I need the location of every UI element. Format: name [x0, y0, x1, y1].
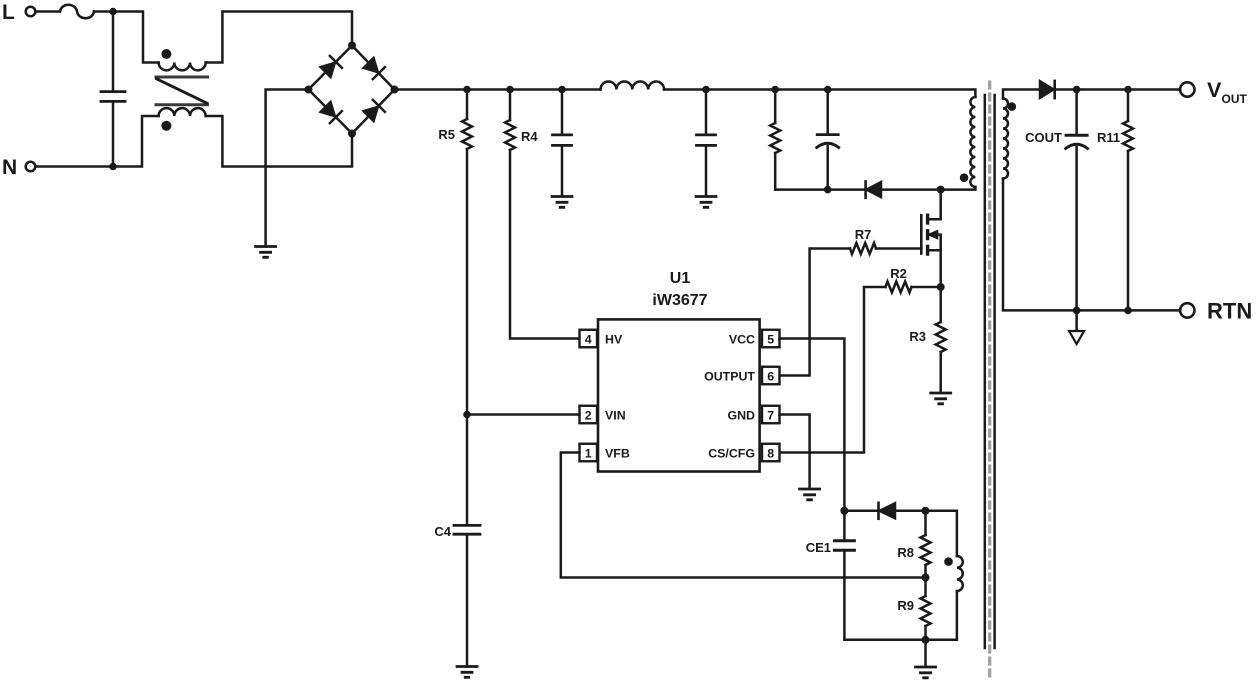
capacitor C4 bottom lead	[466, 536, 469, 666]
svg-text:HV: HV	[605, 333, 623, 347]
bridge BR1 edges	[309, 46, 395, 134]
resistor R8 top lead	[924, 511, 927, 535]
mosfet Q1 source wire	[929, 250, 941, 287]
transformer T1 primary phase dot	[960, 173, 969, 182]
diode D2 cathode bar	[877, 503, 880, 519]
svg-text:COUT: COUT	[1025, 130, 1062, 145]
resistor R11	[1123, 121, 1133, 151]
svg-text:4: 4	[585, 333, 592, 347]
ground bridge	[256, 247, 276, 258]
capacitor C2 top lead	[705, 90, 708, 134]
transformer T1 secondary winding	[1003, 99, 1008, 179]
IC U1 body	[598, 319, 760, 471]
diode D3 cathode bar	[1053, 81, 1056, 98]
capacitor C2 bottom lead	[705, 147, 708, 195]
capacitor C1 plates	[553, 135, 572, 146]
resistor R5	[462, 119, 472, 149]
capacitor CE1 top lead	[843, 511, 846, 540]
junction rail C1	[558, 86, 566, 94]
wire pin 7 GND down	[780, 415, 810, 489]
svg-text:C4: C4	[434, 524, 451, 539]
capacitor CX bottom lead	[112, 103, 115, 167]
svg-text:VCC: VCC	[729, 333, 755, 347]
pin 4 box	[580, 330, 598, 348]
wire D2 anode line	[844, 510, 877, 513]
resistor R8 bottom lead	[924, 565, 927, 578]
output ground arrow	[1069, 331, 1084, 344]
wire pin 1 VFB to divider	[561, 453, 926, 578]
junction N/X-cap	[109, 163, 117, 171]
ground R3	[931, 393, 951, 404]
wire main rail right	[664, 90, 975, 98]
junction rail C2	[702, 86, 710, 94]
choke T2 core diagonal	[157, 79, 208, 103]
pin 1 box	[580, 444, 598, 462]
wire pin 5 VCC down	[780, 339, 845, 511]
svg-text:R3: R3	[909, 329, 926, 344]
bridge BR1 diode bottom-left	[320, 101, 342, 123]
capacitor CX top lead	[112, 12, 115, 91]
junction R8 top node	[922, 507, 930, 515]
junction VIN node	[463, 411, 471, 419]
transformer T1 secondary phase dot	[1008, 102, 1017, 111]
capacitor Csnub plates	[817, 133, 838, 136]
svg-text:R4: R4	[521, 129, 538, 144]
resistor R9	[921, 596, 931, 626]
inductor L1	[601, 82, 665, 90]
resistor R11 bottom lead	[1127, 151, 1130, 310]
diode D2	[880, 503, 896, 518]
junction drain node	[937, 186, 945, 194]
diode D1 cathode bar	[864, 181, 867, 197]
wire choke top to bridge top	[206, 12, 352, 63]
svg-text:7: 7	[767, 409, 774, 423]
wire secondary top to D3	[1003, 90, 1040, 99]
wire L to fuse	[36, 10, 61, 13]
diode D3	[1040, 81, 1054, 98]
junction R11 bottom	[1124, 307, 1132, 315]
svg-text:VFB: VFB	[605, 447, 630, 461]
junction COUT top	[1073, 86, 1081, 94]
resistor Rsnub bottom lead	[774, 153, 777, 190]
resistor R5 bottom lead to VIN node	[466, 149, 469, 415]
pin 8 box	[762, 444, 780, 462]
resistor Rsnub top lead	[774, 90, 777, 124]
wire pin 8 CS/CFG to R2	[780, 287, 886, 453]
junction rail Csnub	[824, 86, 832, 94]
junction divider node	[922, 574, 930, 582]
svg-text:R11: R11	[1097, 130, 1120, 145]
wire D1 to primary bottom	[881, 187, 975, 190]
junction COUT bottom	[1073, 307, 1081, 315]
wire aux winding bottom	[844, 591, 957, 640]
svg-text:R7: R7	[855, 227, 872, 242]
terminal N	[26, 162, 36, 172]
svg-text:CE1: CE1	[806, 540, 831, 555]
diode D1	[867, 182, 882, 197]
junction L/X-cap	[109, 8, 117, 16]
junction rail R4	[506, 86, 514, 94]
capacitor Csnub curved plate	[817, 143, 839, 147]
capacitor CE1 plates	[834, 541, 854, 551]
resistor Rsnub	[770, 123, 780, 153]
wire VIN node to pin 2	[467, 413, 580, 416]
svg-text:L: L	[2, 1, 15, 24]
mosfet Q1 gate bar	[920, 215, 923, 253]
capacitor COUT bottom lead	[1075, 147, 1078, 310]
capacitor C1 top lead	[561, 90, 564, 134]
svg-text:RTN: RTN	[1207, 299, 1252, 324]
wire COUT bottom to output ground	[1075, 310, 1078, 331]
junction rail Rsnub	[771, 86, 779, 94]
junction Csnub bottom	[824, 186, 832, 194]
capacitor Csnub top lead	[826, 90, 829, 134]
mosfet Q1 channel segments	[926, 215, 929, 254]
ground pin 7	[800, 489, 820, 500]
wire D2 to aux winding	[895, 511, 957, 556]
svg-text:6: 6	[767, 370, 774, 384]
isolation barrier dashed line	[988, 82, 991, 678]
capacitor C4 plates	[454, 525, 480, 534]
transformer T1 core lines	[985, 95, 995, 648]
choke T2 bottom winding	[159, 108, 206, 116]
bridge BR1 vertex dots	[305, 42, 399, 138]
resistor R9 top lead	[924, 578, 927, 597]
bridge BR1 diode top-left	[320, 56, 342, 78]
svg-text:iW3677: iW3677	[652, 292, 707, 309]
resistor R4 top lead	[509, 90, 512, 121]
choke T2 top winding	[159, 63, 206, 71]
ground C2	[696, 197, 716, 208]
svg-text:OUT: OUT	[1222, 92, 1248, 106]
wire main rail left	[395, 88, 601, 91]
svg-text:V: V	[1207, 78, 1222, 102]
choke T2 core	[156, 77, 208, 105]
terminal VOUT	[1180, 82, 1194, 96]
ground C4	[457, 667, 477, 678]
terminal RTN	[1180, 303, 1194, 317]
resistor R8	[921, 535, 931, 565]
svg-text:U1: U1	[670, 270, 691, 287]
wire gate to R7	[876, 247, 921, 250]
resistor R5 top lead	[466, 90, 469, 120]
capacitor Csnub bottom lead	[826, 146, 829, 190]
svg-text:1: 1	[585, 447, 592, 461]
capacitor COUT top lead	[1075, 90, 1078, 134]
resistor R11 top lead	[1127, 90, 1130, 122]
resistor R3	[936, 322, 946, 352]
capacitor CE1 bottom lead	[843, 552, 846, 640]
capacitor C1 bottom lead	[561, 147, 564, 195]
wire N to choke bottom-left	[36, 116, 159, 167]
wire divider to ground	[924, 640, 927, 666]
wire fuse to choke top-left	[94, 12, 159, 63]
resistor R2	[886, 282, 912, 293]
bridge BR1 diode bottom-right	[363, 100, 385, 122]
wire D3 to VOUT	[1055, 88, 1180, 91]
svg-text:CS/CFG: CS/CFG	[708, 447, 755, 461]
wire secondary bottom to RTN	[1003, 179, 1180, 311]
transformer T1 aux phase dot	[944, 557, 953, 566]
wire R4 to pin 4 HV	[510, 150, 580, 339]
junction rail R5	[463, 86, 471, 94]
capacitor CX plates	[101, 92, 125, 102]
svg-text:GND: GND	[727, 409, 755, 423]
mosfet Q1 drain wire	[929, 190, 941, 220]
terminal L	[26, 7, 36, 17]
junction aux ground node	[922, 636, 930, 644]
svg-text:R9: R9	[897, 598, 914, 613]
choke T2 top phase dot	[161, 49, 171, 59]
pin 6 box	[762, 367, 780, 385]
ground C1	[552, 197, 572, 208]
transformer T1 primary winding	[970, 97, 975, 187]
mosfet Q1 body arrow	[930, 231, 938, 237]
capacitor C2 plates	[697, 135, 716, 146]
ground aux	[916, 667, 936, 678]
svg-text:R8: R8	[897, 545, 914, 560]
resistor R3 bottom lead	[939, 352, 942, 392]
wire R7 to pin 6 OUTPUT	[780, 249, 851, 376]
wire choke bottom to bridge bottom	[206, 116, 352, 167]
resistor R7	[850, 243, 876, 254]
wire bridge left vertex to ground	[266, 90, 309, 247]
svg-text:OUTPUT: OUTPUT	[704, 370, 755, 384]
capacitor COUT plates	[1066, 134, 1087, 137]
mosfet Q1 body wire	[929, 235, 941, 251]
pin 7 box	[762, 406, 780, 424]
fuse F1	[60, 5, 94, 19]
svg-text:8: 8	[767, 447, 774, 461]
svg-text:N: N	[2, 156, 17, 179]
svg-text:5: 5	[767, 333, 774, 347]
capacitor C4 top lead	[466, 415, 469, 525]
wire R2 to source node	[912, 286, 941, 289]
svg-text:VIN: VIN	[605, 409, 626, 423]
bridge BR1 diode top-right	[363, 57, 385, 79]
svg-text:R5: R5	[438, 127, 455, 142]
capacitor COUT curved plate	[1066, 144, 1088, 148]
transformer T1 aux winding	[957, 556, 963, 591]
pin 2 box	[580, 406, 598, 424]
junction R11 top	[1124, 86, 1132, 94]
junction VCC/D2 node	[840, 507, 848, 515]
junction source node	[937, 283, 945, 291]
resistor R9 bottom lead	[924, 626, 927, 640]
svg-text:2: 2	[585, 409, 592, 423]
resistor R3 top lead	[939, 287, 942, 322]
choke T2 bottom phase dot	[161, 121, 171, 131]
pin 5 box	[762, 330, 780, 348]
resistor R4	[505, 120, 515, 150]
svg-text:R2: R2	[890, 266, 907, 281]
wire snubber bottom	[775, 188, 866, 191]
